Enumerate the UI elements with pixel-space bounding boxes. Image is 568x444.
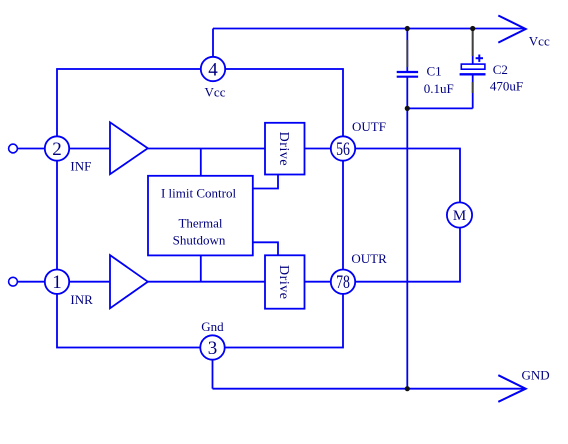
pin 56 circle (331, 136, 355, 160)
svg-text:3: 3 (208, 338, 218, 359)
svg-text:OUTR: OUTR (351, 251, 387, 266)
svg-text:Thermal: Thermal (178, 216, 222, 231)
capacitor C2 bottom plate (460, 73, 486, 75)
svg-text:470uF: 470uF (490, 78, 523, 93)
terminal INR (9, 277, 18, 286)
Vcc arrow (498, 16, 525, 43)
svg-text:Drive: Drive (276, 132, 291, 166)
wire: stub down to control box top (200, 149, 202, 176)
junction dot cap bottom node (405, 106, 410, 111)
svg-text:2: 2 (52, 139, 62, 160)
svg-text:4: 4 (208, 59, 218, 80)
motor M1 (447, 202, 472, 227)
Drive R box (265, 255, 305, 308)
pin 3 circle (200, 335, 224, 359)
pin 1 circle (45, 270, 69, 294)
wire: capacitor bottom node (407, 107, 472, 109)
amplifier A1 (110, 122, 148, 174)
Drive F box (265, 123, 305, 175)
capacitor C2 plus sign (476, 55, 483, 62)
wire: pin 1 to amp2 input (57, 281, 110, 283)
terminal INF (9, 144, 18, 153)
control box U1 (148, 176, 253, 256)
svg-text:C2: C2 (493, 62, 508, 77)
wire: C2 bottom lead (472, 74, 474, 108)
svg-text:C1: C1 (427, 63, 442, 78)
wire: Drive F to pin 56 (305, 148, 344, 150)
junction dot GND rail (405, 386, 410, 391)
wire: control box to Drive R top (253, 242, 278, 255)
svg-text:56: 56 (336, 139, 350, 160)
wire: motor bottom to pin 78 (343, 227, 460, 281)
wire: pin 56 to motor top (343, 149, 460, 203)
amplifier A2 (110, 255, 148, 308)
wire: amp2 output to Drive R (148, 281, 265, 283)
wire: amp1 output to Drive F (148, 148, 265, 150)
svg-text:GND: GND (522, 368, 550, 383)
junction dot Vcc/C2 (470, 26, 475, 31)
wire: pin 2 to amp1 input (57, 148, 110, 150)
wire: C1 top lead (406, 29, 408, 72)
svg-text:1: 1 (52, 272, 62, 293)
pin 2 circle (45, 136, 69, 160)
svg-text:INF: INF (70, 159, 91, 174)
wire: GND rail (213, 388, 525, 390)
capacitor C1 plates (397, 72, 418, 77)
svg-text:M: M (453, 208, 466, 224)
wire: pin 4 up to Vcc rail (212, 29, 214, 70)
wire: terminal to pin 1 (17, 281, 57, 283)
pin 4 circle (201, 57, 225, 81)
IC outline rectangle (57, 69, 343, 348)
wire: C1 bottom lead (406, 78, 408, 109)
capacitor C2 polarized plate (461, 64, 485, 69)
pin 78 circle (331, 270, 355, 294)
wire: control box to Drive F bottom (253, 175, 278, 189)
svg-text:INR: INR (70, 292, 93, 307)
svg-text:78: 78 (336, 272, 350, 293)
svg-text:Gnd: Gnd (201, 319, 224, 334)
wire: terminal to pin 2 (17, 148, 57, 150)
svg-text:Vcc: Vcc (529, 33, 550, 48)
wire: C2 top lead (472, 29, 474, 64)
svg-text:0.1uF: 0.1uF (424, 81, 454, 96)
svg-text:I limit Control: I limit Control (161, 186, 237, 201)
svg-text:OUTF: OUTF (352, 119, 386, 134)
capacitor C2 pins (dark) (472, 31, 474, 93)
GND arrow (498, 375, 525, 402)
wire: main vertical to ground (406, 108, 408, 388)
svg-text:Shutdown: Shutdown (173, 233, 226, 248)
svg-text:Drive: Drive (276, 265, 291, 299)
wire: Vcc rail (213, 28, 525, 30)
wire: Drive R to pin 78 (305, 281, 344, 283)
wire: pin 3 down (212, 348, 214, 389)
svg-text:Vcc: Vcc (205, 85, 226, 100)
capacitor C1 pin (dark) (406, 40, 408, 67)
wire: stub up to control box bottom (200, 255, 202, 281)
junction dot Vcc/C1 (405, 26, 410, 31)
